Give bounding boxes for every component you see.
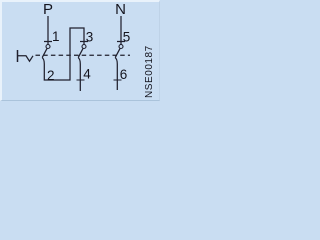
svg-text:P: P bbox=[43, 1, 53, 18]
svg-text:6: 6 bbox=[120, 67, 128, 82]
svg-text:5: 5 bbox=[123, 30, 131, 45]
svg-text:2: 2 bbox=[47, 68, 55, 83]
svg-text:NSE00187: NSE00187 bbox=[144, 45, 155, 98]
svg-text:N: N bbox=[115, 1, 126, 18]
svg-text:4: 4 bbox=[83, 67, 91, 82]
svg-text:1: 1 bbox=[52, 29, 60, 44]
svg-text:3: 3 bbox=[86, 30, 94, 45]
